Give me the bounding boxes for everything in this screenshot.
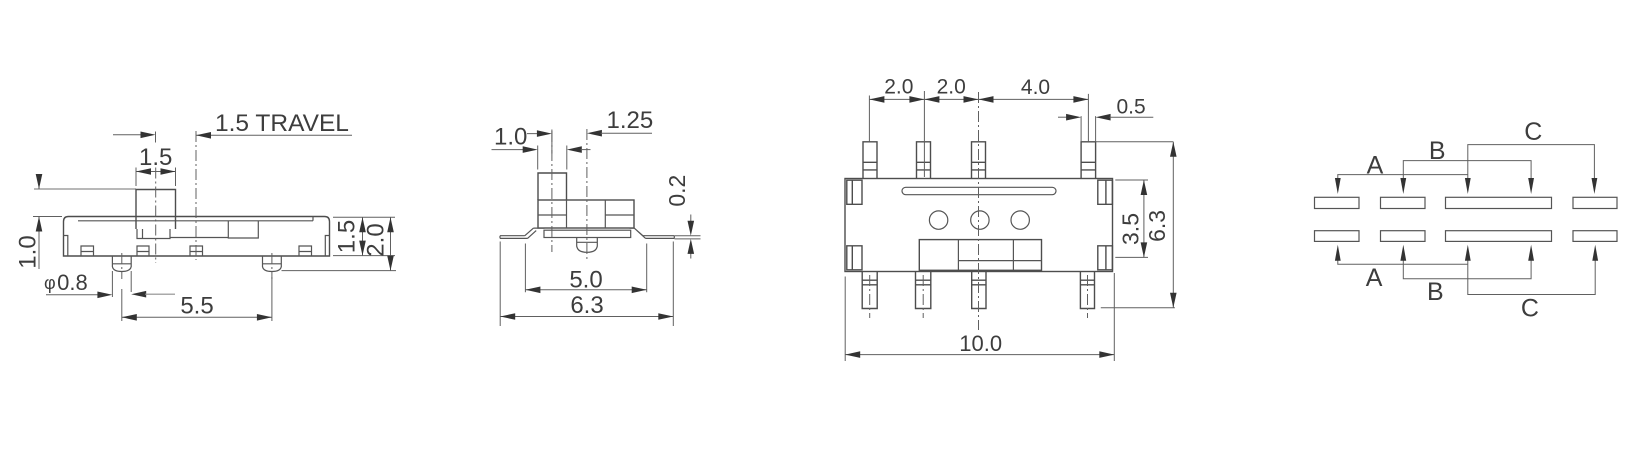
terminal bump 2: [137, 246, 149, 256]
dimension 1.5 (body height): [362, 217, 364, 255]
pad 1 top: [1315, 197, 1360, 208]
svg-text:1.5: 1.5: [139, 144, 172, 171]
body internal vertical walls: [567, 200, 606, 228]
pin right centerline: [271, 253, 273, 279]
dimension 5.0 (bracket inner span): [525, 244, 646, 293]
svg-text:φ0.8: φ0.8: [44, 270, 88, 295]
corner pad top-left: [847, 180, 862, 204]
dimension 6.3 (overall width): [500, 242, 673, 327]
dimension 1.0 (left height): [33, 175, 62, 269]
body right inner notch: [325, 236, 329, 257]
svg-text:5.0: 5.0: [569, 267, 602, 294]
switch body (top view): [845, 179, 1113, 272]
terminal bump 3: [190, 246, 203, 256]
hole 2: [971, 211, 989, 229]
switch body (end view): [538, 200, 634, 228]
link C bottom: [1468, 254, 1595, 295]
switch body (side view) outline: [64, 217, 330, 257]
top pin 1: [863, 142, 877, 179]
svg-text:5.5: 5.5: [180, 293, 213, 320]
top dimension chain line: [869, 98, 1088, 100]
dimension 10.0: [845, 273, 1114, 361]
svg-text:10.0: 10.0: [959, 331, 1002, 356]
svg-text:B: B: [1427, 278, 1444, 306]
link C top: [1468, 145, 1595, 185]
seat plate: [544, 230, 631, 237]
svg-text:1.25: 1.25: [607, 107, 654, 134]
slider plate under knob: [137, 229, 170, 239]
pad 2 top: [1381, 197, 1426, 208]
travel slot: [902, 187, 1056, 194]
pin left centerline: [121, 253, 123, 279]
bottom pin 3: [972, 272, 986, 309]
svg-text:6.3: 6.3: [1144, 210, 1170, 242]
svg-text:2.0: 2.0: [362, 223, 389, 256]
hole 1: [929, 211, 947, 229]
mounting bracket right foot: [630, 228, 675, 238]
corner pad top-right: [1098, 180, 1113, 204]
slider block (top view): [919, 240, 1041, 271]
hole 3: [1011, 211, 1029, 229]
mounting bracket left foot: [500, 228, 545, 238]
svg-text:3.5: 3.5: [1118, 213, 1144, 245]
center solder pin (end view): [577, 238, 598, 253]
dimension 5.5 (pin pitch): [122, 277, 272, 321]
top pin 2: [917, 142, 931, 179]
svg-text:6.3: 6.3: [570, 292, 603, 319]
knob centerline: [155, 168, 157, 264]
svg-text:A: A: [1367, 152, 1384, 180]
svg-text:0.5: 0.5: [1117, 96, 1146, 119]
terminal bump 1: [81, 246, 94, 256]
knob top reference line: [34, 188, 136, 190]
part centerline (top view): [978, 92, 980, 330]
bottom pin 1: [862, 272, 877, 309]
svg-text:1.5: 1.5: [333, 220, 360, 253]
pad 4 bottom: [1573, 231, 1617, 242]
svg-text:2.0: 2.0: [937, 76, 966, 99]
top dimension extension lines: [869, 91, 1095, 177]
bottom pin centerlines: [870, 275, 1088, 318]
travel position centerline: [195, 131, 197, 260]
knob: [136, 190, 176, 230]
svg-text:B: B: [1429, 137, 1446, 165]
terminal bump 4: [299, 246, 312, 256]
pad 3 top (common): [1446, 197, 1552, 208]
bottom pin 4: [1080, 272, 1094, 309]
solder pin right: [263, 256, 282, 272]
pad 3 bottom (common): [1446, 231, 1552, 242]
pad 2 bottom: [1381, 231, 1426, 242]
svg-text:2.0: 2.0: [884, 76, 913, 99]
stem centerline: [551, 131, 553, 252]
body internal shelf lines: [538, 214, 634, 216]
top pin 4: [1081, 142, 1096, 179]
travel left arrow: [113, 134, 150, 136]
dimension 1.5 (knob width): [136, 168, 176, 187]
part centerline (end view): [586, 129, 588, 259]
corner pad bottom-left: [847, 246, 862, 270]
link B bottom: [1403, 254, 1531, 279]
link B top: [1403, 161, 1531, 185]
knob stem (end view): [538, 173, 567, 200]
dimension 3.5: [1115, 180, 1148, 257]
pad 1 bottom: [1315, 231, 1360, 242]
top pin 3: [972, 142, 986, 179]
svg-text:1.5 TRAVEL: 1.5 TRAVEL: [215, 110, 349, 137]
link A top: [1338, 175, 1468, 185]
link A bottom: [1338, 254, 1468, 264]
svg-text:A: A: [1366, 264, 1383, 292]
bottom pin 2: [916, 272, 931, 309]
corner pad bottom-right: [1098, 246, 1113, 270]
solder pin left: [112, 256, 131, 272]
slider link line: [170, 237, 228, 239]
right side extension ticks: [282, 217, 397, 270]
svg-text:1.0: 1.0: [14, 235, 41, 268]
body cover inner top line: [78, 217, 313, 221]
dimension 6.3 (top view): [1096, 142, 1175, 308]
svg-text:C: C: [1524, 118, 1542, 146]
slider contact block: [228, 221, 258, 238]
dimension 2.0 (overall height): [390, 217, 392, 270]
svg-text:C: C: [1521, 295, 1539, 323]
svg-text:1.0: 1.0: [494, 124, 527, 151]
svg-text:4.0: 4.0: [1021, 76, 1050, 99]
svg-text:0.2: 0.2: [664, 175, 690, 207]
body left inner notch: [64, 236, 68, 257]
pad 4 top: [1573, 197, 1617, 208]
